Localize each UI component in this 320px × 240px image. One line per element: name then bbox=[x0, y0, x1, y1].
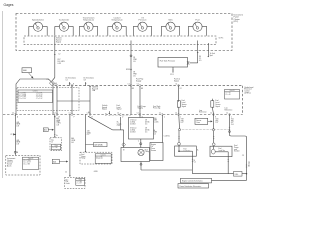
svg-text:C2: C2 bbox=[65, 171, 67, 173]
svg-text:C6 = 2 BK: C6 = 2 BK bbox=[36, 96, 43, 98]
svg-text:C2 = 48: C2 = 48 bbox=[225, 94, 230, 96]
svg-text:C2 8: C2 8 bbox=[170, 74, 174, 76]
svg-text:C3 = 12 GY: C3 = 12 GY bbox=[19, 98, 26, 100]
svg-text:C2: C2 bbox=[54, 113, 56, 115]
svg-text:C3 = 2 BK: C3 = 2 BK bbox=[23, 163, 30, 165]
svg-text:C1 = 48 BU: C1 = 48 BU bbox=[19, 93, 26, 95]
svg-text:C2: C2 bbox=[10, 134, 12, 136]
svg-text:Gages: Gages bbox=[4, 3, 14, 7]
svg-text:C2: C2 bbox=[54, 84, 56, 86]
svg-text:B: B bbox=[17, 152, 18, 154]
svg-text:A31: A31 bbox=[53, 161, 56, 164]
svg-text:C1 = 48: C1 = 48 bbox=[225, 92, 230, 94]
svg-text:1 = 2 BK: 1 = 2 BK bbox=[52, 147, 57, 149]
svg-text:C1: C1 bbox=[69, 113, 71, 115]
svg-text:C2: C2 bbox=[175, 113, 177, 115]
svg-text:C1: C1 bbox=[137, 113, 139, 115]
svg-text:Conn ID: Conn ID bbox=[101, 155, 106, 157]
svg-text:Conn ID: Conn ID bbox=[28, 158, 33, 160]
svg-text:Conn ID: Conn ID bbox=[229, 90, 234, 92]
svg-text:S233: S233 bbox=[126, 69, 130, 71]
svg-text:C3: C3 bbox=[242, 155, 244, 157]
svg-text:C3 = 12 BK: C3 = 12 BK bbox=[19, 96, 26, 98]
svg-text:TransmissionTemperature: TransmissionTemperature bbox=[83, 18, 95, 22]
svg-text:C8C2B3: C8C2B3 bbox=[248, 162, 250, 167]
svg-text:Dk: Dk bbox=[88, 112, 90, 114]
svg-text:C7 = 2 GY: C7 = 2 GY bbox=[36, 98, 43, 100]
svg-text:Fuel: Fuel bbox=[196, 20, 200, 22]
svg-text:C1: C1 bbox=[137, 84, 139, 86]
svg-text:C2: C2 bbox=[210, 113, 212, 115]
svg-text:C1: C1 bbox=[175, 84, 177, 86]
svg-text:C1: C1 bbox=[159, 113, 161, 115]
svg-text:VehicleSpeedSignal: VehicleSpeedSignal bbox=[102, 105, 108, 111]
svg-text:C2: C2 bbox=[12, 113, 14, 115]
svg-text:F: F bbox=[74, 117, 75, 119]
svg-text:C2 = 4 GY: C2 = 4 GY bbox=[96, 158, 103, 160]
svg-text:C4 = 4 BK: C4 = 4 BK bbox=[36, 93, 43, 95]
svg-text:Fuel TankPress Sig: Fuel TankPress Sig bbox=[153, 106, 160, 110]
svg-text:C1: C1 bbox=[128, 84, 130, 86]
svg-text:Volts: Volts bbox=[168, 19, 172, 22]
svg-text:C2: C2 bbox=[58, 53, 60, 55]
svg-text:VehicleSpeedSignal: VehicleSpeedSignal bbox=[56, 38, 62, 44]
svg-text:Conn: Conn bbox=[54, 145, 57, 147]
svg-text:B3: B3 bbox=[132, 88, 134, 90]
svg-text:C2 = 10 GY: C2 = 10 GY bbox=[23, 162, 31, 164]
svg-text:Conn: Conn bbox=[79, 179, 82, 181]
svg-text:Speedometer: Speedometer bbox=[32, 19, 44, 22]
svg-text:E: E bbox=[73, 84, 74, 86]
svg-text:C1: C1 bbox=[226, 113, 228, 115]
svg-text:C1 = 2 WH: C1 = 2 WH bbox=[23, 160, 30, 162]
svg-text:F2: F2 bbox=[180, 88, 182, 90]
svg-text:Tachometer: Tachometer bbox=[59, 19, 70, 22]
svg-text:S110: S110 bbox=[235, 174, 239, 176]
svg-text:To IPC: To IPC bbox=[219, 37, 225, 39]
svg-text:G305: G305 bbox=[94, 171, 98, 173]
svg-text:E8: E8 bbox=[141, 88, 143, 90]
svg-text:C5 = 4 GY: C5 = 4 GY bbox=[36, 94, 43, 96]
svg-text:2 = 2 GY: 2 = 2 GY bbox=[77, 183, 82, 185]
svg-text:Conn ID: Conn ID bbox=[33, 91, 38, 93]
svg-text:C2: C2 bbox=[117, 113, 119, 115]
svg-text:C (18 G): C (18 G) bbox=[164, 136, 170, 138]
svg-text:Fuel Tank Pressure: Fuel Tank Pressure bbox=[160, 60, 175, 62]
